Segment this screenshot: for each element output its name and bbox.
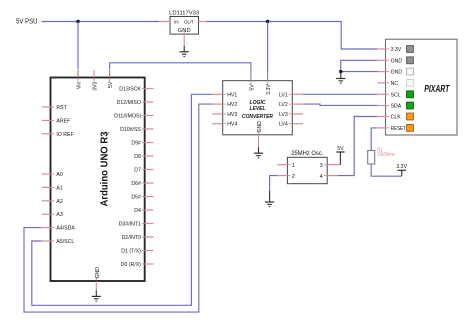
svg-text:LOGIC: LOGIC [250,100,267,106]
junction 5V rail / Vin [76,20,79,23]
pin CLK (PIXART) [377,113,413,120]
ground (LLC) [254,147,263,158]
pin 4 [320,174,338,180]
LLC LV pins [279,92,303,127]
PIXART pins [377,46,413,132]
pin 5V [108,70,114,88]
svg-text:GND: GND [391,70,403,76]
svg-text:GND: GND [95,267,101,279]
pin SDA (PIXART) [377,102,413,109]
pin HV3 [212,112,237,118]
sensor module U4 PIXART [386,39,458,135]
svg-text:LD1117V33: LD1117V33 [169,10,199,16]
pin 5V (LLC) [250,71,256,91]
pin GND (Arduino) [95,267,101,291]
svg-text:D1 (T/X): D1 (T/X) [121,249,141,255]
pin A1 [42,185,63,191]
pin D1 (T/X) [121,249,153,255]
svg-text:3.3V: 3.3V [396,164,407,170]
svg-text:D6#: D6# [131,181,141,187]
svg-text:A1: A1 [56,185,62,191]
pin IO REF [42,132,74,138]
svg-text:RST: RST [56,105,67,111]
svg-text:2: 2 [292,174,295,180]
svg-text:SCL: SCL [391,92,401,98]
power 5V (oscillator) [336,146,344,165]
pin GND (LLC) [257,121,263,147]
svg-text:NC: NC [391,81,399,87]
svg-text:3: 3 [320,163,323,169]
svg-text:Arduino UNO R3: Arduino UNO R3 [100,131,111,206]
pin D6# [131,181,153,187]
svg-text:5V: 5V [250,84,256,91]
pin D10#/SS [120,127,153,133]
svg-text:CONVERTER: CONVERTER [242,114,274,120]
ground (PIXART) [336,72,345,84]
pin A5/SCL [42,239,75,245]
wire A4/SDA to LLC HV2 [24,104,212,312]
svg-text:3.3V: 3.3V [266,84,272,95]
svg-text:D8: D8 [134,154,141,160]
pin D2/INT0 [122,235,154,241]
svg-text:D4: D4 [134,208,141,214]
svg-text:GND: GND [257,121,263,133]
svg-text:RESET: RESET [391,126,407,132]
svg-text:A3: A3 [56,212,62,218]
pin 3.3V (PIXART) [377,46,413,53]
svg-text:3.3V: 3.3V [391,47,402,53]
oscillator pins [277,163,337,180]
svg-text:D5#: D5# [131,195,141,201]
pin LV2 [279,102,303,108]
oscillator X1 25MHz [287,150,327,184]
pin D11#/MOSI [114,114,153,120]
ground (Arduino) [92,290,101,301]
pin 3 [320,163,338,169]
pin D8 [134,154,153,160]
wire junction to LLC 3.3V pin [267,22,269,72]
svg-text:10kOhms: 10kOhms [377,152,395,158]
pin D7 [134,168,153,174]
pin D3#/INT1 [119,222,154,228]
svg-text:IN: IN [174,20,179,25]
wire 5V PSU to regulator IN [42,21,160,23]
pin D13/SCK [119,87,153,93]
svg-text:D13/SCK: D13/SCK [119,87,141,93]
wire oscillator pin 2 to ground [270,176,278,191]
pin A4/SDA [42,226,76,232]
wire A5/SCL to LLC HV1 [32,94,212,305]
pin OUT stub [199,21,208,23]
pin A3 [42,212,63,218]
pin RST [42,105,68,111]
svg-text:A5/SCL: A5/SCL [56,239,74,245]
svg-text:HV3: HV3 [227,112,237,118]
pin D12/MISO [117,100,154,106]
svg-text:HV1: HV1 [227,92,237,98]
pin GND (PIXART) [377,57,413,64]
svg-text:D3#/INT1: D3#/INT1 [119,222,141,228]
svg-text:5V: 5V [108,81,114,88]
pin AREF [42,118,70,124]
resistor R1 [368,151,375,165]
wire Arduino 5V to LLC 5V [110,63,251,72]
Arduino right pin row [114,87,153,269]
LLC HV pins [212,92,237,127]
pin 3.3V (LLC) [266,71,272,95]
junction PIXART GND [339,70,342,73]
svg-text:LV1: LV1 [279,92,288,98]
pin HV1 [212,92,237,98]
svg-text:A4/SDA: A4/SDA [56,226,75,232]
svg-text:HV4: HV4 [227,122,237,128]
pin D5# [131,195,153,201]
pin GND stub (regulator) [183,34,185,46]
wire PIXART RESET to resistor R1 [371,128,377,151]
microcontroller U1 Arduino UNO R3 [51,78,145,282]
svg-text:25MHz Osc.: 25MHz Osc. [291,150,323,157]
pin A0 [42,172,63,178]
pin LV3 [279,112,303,118]
pin 3V3 [93,70,99,91]
svg-text:D11#/MOSI: D11#/MOSI [114,114,141,120]
pin GND (PIXART) [377,68,413,75]
pin SCL (PIXART) [377,91,413,98]
wire PIXART GND1 down [341,60,378,71]
Arduino left pin row [42,105,76,245]
junction 3.3V rail / LLC [266,20,269,23]
svg-text:LEVEL: LEVEL [250,106,266,112]
power 3.3V (R1 pull-up) [396,164,407,176]
pin IN stub [159,21,170,23]
wire regulator OUT to PIXART 3.3V [207,22,377,50]
svg-text:D7: D7 [134,168,141,174]
svg-text:5V PSU: 5V PSU [16,19,38,26]
voltage regulator LD1117V33 [169,10,199,34]
pin HV2 [212,102,237,108]
svg-text:1: 1 [292,163,295,169]
pin RESET (PIXART) [377,125,413,132]
svg-text:3V3: 3V3 [93,82,99,91]
svg-text:IO REF: IO REF [56,132,73,138]
svg-text:AREF: AREF [56,118,70,124]
wire LLC LV1 to PIXART SCL [303,93,377,95]
svg-text:D0 (R/X): D0 (R/X) [121,262,141,268]
svg-text:D9#: D9# [131,141,141,147]
pin LV1 [279,92,303,98]
wire junction to Arduino Vin [77,22,79,70]
pin Vin [77,70,83,89]
svg-text:PIXART: PIXART [424,84,450,95]
wire R1 to 3.3V supply [371,164,402,176]
LLC top pins [250,71,273,95]
svg-text:Vin: Vin [77,82,83,90]
svg-text:A2: A2 [56,199,62,205]
ground (regulator) [180,46,189,57]
svg-text:A0: A0 [56,172,62,178]
pin D9# [131,141,153,147]
svg-text:LV4: LV4 [279,122,288,128]
pin LV4 [279,122,303,128]
svg-text:LV3: LV3 [279,112,288,118]
ground (oscillator) [265,191,274,207]
svg-text:D10#/SS: D10#/SS [120,127,141,133]
pin D0 (R/X) [121,262,154,268]
pin D4 [134,208,153,214]
pin NC (PIXART) [377,80,413,87]
pin 2 [277,174,295,180]
svg-text:D12/MISO: D12/MISO [117,100,141,106]
pin HV4 [212,122,237,128]
pin A2 [42,199,63,205]
svg-text:D2/INT0: D2/INT0 [122,235,141,241]
pin 1 [277,163,295,169]
logic level converter U3 [223,81,293,135]
wire PIXART CLK to oscillator pin 4 [337,117,377,176]
svg-text:CLK: CLK [391,115,402,121]
wire LLC LV2 to PIXART SDA [303,104,377,105]
svg-text:4: 4 [320,174,323,180]
wire PIXART GND2 [341,71,378,73]
svg-text:5V: 5V [337,146,344,152]
wire oscillator pin 3 to 5V [337,164,340,166]
svg-text:LV2: LV2 [279,102,288,108]
svg-text:GND: GND [391,58,403,64]
svg-text:SDA: SDA [391,104,402,110]
svg-text:HV2: HV2 [227,102,237,108]
svg-text:OUT: OUT [184,20,194,25]
Arduino top pin row [77,70,115,91]
